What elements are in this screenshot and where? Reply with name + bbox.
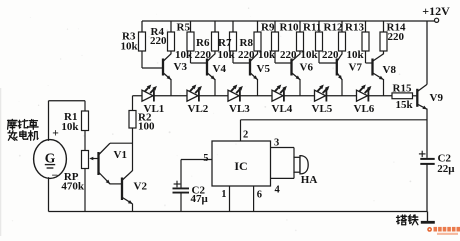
wire +12V top supply rail xyxy=(142,20,435,22)
resistor R2 100 xyxy=(132,96,134,111)
resistor R4 220 xyxy=(170,21,172,32)
wire emitter drop of V5 xyxy=(257,79,259,96)
wire emitter drop of V3 xyxy=(170,79,172,96)
resistor R11 10k xyxy=(318,21,320,32)
svg-text:R8: R8 xyxy=(240,37,254,49)
LED VL3 xyxy=(228,90,239,101)
text glyph mo xyxy=(8,119,17,129)
svg-text:VL4: VL4 xyxy=(272,103,293,115)
svg-text:470k: 470k xyxy=(61,181,85,193)
svg-text:R7: R7 xyxy=(218,37,232,49)
wire base of V7 from resistor xyxy=(318,51,320,63)
resistor R5 10k xyxy=(190,21,192,32)
transistor V1 xyxy=(97,152,99,175)
svg-text:V9: V9 xyxy=(430,92,444,104)
svg-text:47μ: 47μ xyxy=(191,193,209,205)
wire V1 emitter to V2 base xyxy=(110,183,123,185)
svg-text:6: 6 xyxy=(257,189,262,200)
svg-text:V4: V4 xyxy=(213,63,227,75)
wire generator plus to R1 xyxy=(48,101,50,141)
text glyph fa xyxy=(8,131,17,141)
svg-text:10k: 10k xyxy=(258,49,276,61)
resistor R9 10k xyxy=(274,21,276,32)
svg-text:10k: 10k xyxy=(121,41,139,53)
wire emitter drop of V4 xyxy=(214,79,216,96)
wire emitter drop of V7 xyxy=(341,79,343,96)
svg-text:−: − xyxy=(52,170,59,182)
wire emitter drop of V6 xyxy=(299,79,301,96)
svg-text:15k: 15k xyxy=(396,99,414,111)
watermark logo xyxy=(427,227,432,232)
svg-text:VL5: VL5 xyxy=(312,103,333,115)
wire base of V5 from resistor xyxy=(232,51,234,63)
svg-text:100: 100 xyxy=(138,121,155,133)
wire generator minus to ground rail xyxy=(48,177,50,211)
resistor R1 10k xyxy=(84,101,86,111)
svg-text:220: 220 xyxy=(388,31,405,43)
IC pin 1 wire xyxy=(229,186,231,212)
wire RP to ground rail xyxy=(84,169,86,212)
wire R2 to V1/V2 collectors xyxy=(132,128,134,171)
svg-text:V6: V6 xyxy=(300,62,314,74)
svg-text:10k: 10k xyxy=(61,121,79,133)
resistor R7 10k xyxy=(232,21,234,32)
svg-text:R6: R6 xyxy=(196,37,210,49)
wire base of V4 from resistor xyxy=(190,51,192,63)
potentiometer RP 470k xyxy=(82,151,89,169)
svg-text:R11: R11 xyxy=(303,22,321,34)
transistor V8 xyxy=(371,59,373,76)
wire base of V6 from resistor xyxy=(274,51,276,63)
resistor R13 10k xyxy=(365,21,367,32)
resistor R6 220 xyxy=(214,21,216,32)
ground (chassis) symbol xyxy=(427,212,429,222)
text glyph da xyxy=(397,215,407,225)
resistor R15 15k xyxy=(392,93,413,99)
text glyph che xyxy=(29,120,39,130)
svg-text:R10: R10 xyxy=(280,22,299,34)
LED VL6 xyxy=(357,90,368,101)
svg-text:V7: V7 xyxy=(349,62,363,74)
LED VL2 xyxy=(187,90,198,101)
transistor V3 xyxy=(162,59,164,76)
transistor V4 xyxy=(206,59,208,76)
svg-text:5: 5 xyxy=(203,153,208,164)
IC pin 6 wire xyxy=(253,186,255,212)
transistor V2 xyxy=(121,178,123,201)
svg-text:V5: V5 xyxy=(257,63,271,75)
resistor R12 220 xyxy=(341,21,343,32)
svg-text:HA: HA xyxy=(301,174,318,186)
svg-text:VL6: VL6 xyxy=(354,103,375,115)
svg-text:22μ: 22μ xyxy=(437,163,455,175)
terminal +12V xyxy=(435,18,439,22)
svg-text:+: + xyxy=(52,128,59,140)
LED VL5 xyxy=(315,90,326,101)
svg-text:IC: IC xyxy=(234,159,247,173)
svg-text:R15: R15 xyxy=(393,82,412,94)
svg-text:VL2: VL2 xyxy=(188,103,209,115)
resistor R3 10k xyxy=(141,21,143,32)
svg-text:VL3: VL3 xyxy=(229,103,250,115)
wire V9 emitter down xyxy=(426,109,428,158)
text glyph ji xyxy=(29,131,39,140)
generator G (motorcycle alternator) xyxy=(34,140,67,179)
svg-text:G: G xyxy=(45,151,56,166)
resistor R8 220 xyxy=(257,21,259,32)
svg-text:R12: R12 xyxy=(324,22,343,34)
svg-text:4: 4 xyxy=(275,185,281,196)
transistor V6 xyxy=(290,59,292,76)
wire bottom ground rail xyxy=(49,211,428,213)
text glyph tuo xyxy=(18,120,27,128)
wire V2 emitter to ground rail xyxy=(132,204,134,212)
scan noise (decorative) xyxy=(148,36,150,38)
wire R1 to RP xyxy=(84,131,86,151)
wire base of V3 from resistor xyxy=(141,51,143,68)
svg-text:10k: 10k xyxy=(347,49,365,61)
resistor R14 220 xyxy=(383,21,385,32)
transistor V7 xyxy=(336,59,338,76)
resistor R10 220 xyxy=(299,21,301,32)
wire V1 collector to R2 column xyxy=(110,142,133,144)
wire +12V drop to V9 collector xyxy=(426,21,428,84)
wire LED anode row xyxy=(133,95,393,97)
wire base of V8 from resistor xyxy=(365,51,367,63)
svg-text:V8: V8 xyxy=(383,64,397,76)
svg-text:1: 1 xyxy=(221,189,226,200)
wire emitter drop of V8 xyxy=(383,79,385,96)
text glyph tie xyxy=(408,215,418,225)
svg-text:R9: R9 xyxy=(261,22,275,34)
svg-text:10k: 10k xyxy=(301,49,319,61)
IC pin 4 wire xyxy=(271,177,295,179)
transistor V5 xyxy=(249,59,251,76)
svg-text:V3: V3 xyxy=(174,61,188,73)
svg-text:220: 220 xyxy=(150,35,167,47)
svg-text:V1: V1 xyxy=(114,149,127,161)
IC pin 5 wire xyxy=(181,159,212,161)
LED VL1 xyxy=(142,90,153,101)
wire IC pin 2 to V9 emitter node xyxy=(240,120,242,141)
capacitor C2 22µ xyxy=(420,158,434,160)
transistor V9 xyxy=(416,89,418,107)
speaker HA xyxy=(294,157,300,172)
svg-text:R13: R13 xyxy=(345,22,364,34)
LED VL4 xyxy=(272,90,283,101)
text glyph dian xyxy=(20,131,28,139)
op-amp IC U1 (tone generator) xyxy=(212,141,271,186)
capacitor C2 47µ xyxy=(173,187,190,189)
svg-text:+12V: +12V xyxy=(422,4,450,18)
IC pin 3 wire xyxy=(271,147,295,149)
svg-text:3: 3 xyxy=(274,137,279,148)
svg-text:V2: V2 xyxy=(134,180,148,192)
svg-text:2: 2 xyxy=(243,130,248,141)
svg-text:R5: R5 xyxy=(177,22,191,34)
